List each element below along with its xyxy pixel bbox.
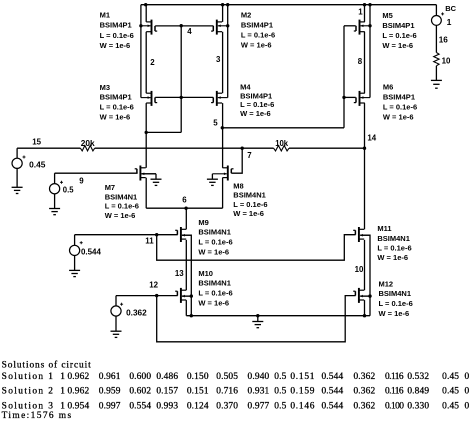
ground at 0.45 source — [12, 186, 23, 188]
svg-text:6: 6 — [182, 195, 187, 204]
wire M2 drain to rail — [222, 5, 224, 22]
wire M6 drain down to node 14 — [364, 103, 366, 148]
wire M9/M10 bulk bus to bottom rail — [182, 235, 191, 316]
svg-text:0: 0 — [464, 401, 469, 411]
svg-text:10: 10 — [442, 56, 451, 66]
svg-text:M6: M6 — [383, 83, 393, 92]
svg-text:0.45: 0.45 — [442, 401, 459, 411]
ground at BC chain — [431, 79, 442, 81]
svg-text:0.5: 0.5 — [274, 401, 286, 411]
svg-text:0.716: 0.716 — [216, 387, 238, 397]
ground at 0.544 source — [69, 269, 80, 271]
ground at M7 bulk — [151, 178, 162, 180]
wire M3-M4 gate row (net 4) — [155, 96, 213, 98]
svg-text:0.544: 0.544 — [321, 401, 343, 411]
svg-text:M3: M3 — [100, 83, 110, 92]
wire M5 drain to rail — [364, 5, 366, 22]
wire VDD top rail net 1 — [141, 4, 437, 6]
node 13 wire M9 source - M10 drain — [185, 240, 187, 290]
svg-text:W = 1e-6: W = 1e-6 — [233, 209, 264, 218]
junction dot (140.9,25.8) — [139, 24, 142, 27]
wire node 9 row to M7 gate — [55, 172, 138, 174]
svg-text:L = 0.1e-6: L = 0.1e-6 — [379, 299, 413, 308]
svg-text:20k: 20k — [81, 138, 95, 148]
transistor M4 — [216, 91, 218, 106]
svg-text:0.157: 0.157 — [156, 387, 178, 397]
svg-text:BSIM4N1: BSIM4N1 — [198, 228, 231, 237]
svg-text:0.554: 0.554 — [129, 401, 151, 411]
svg-text:BSIM4N1: BSIM4N1 — [379, 289, 412, 298]
transistor M2 — [216, 20, 218, 35]
voltage source BC (node 1, value 1) — [432, 16, 442, 26]
svg-text:Time:1576 ms: Time:1576 ms — [2, 411, 73, 421]
svg-text:0.362: 0.362 — [126, 308, 147, 318]
svg-text:0: 0 — [464, 387, 469, 397]
svg-text:BSIM4P1: BSIM4P1 — [241, 21, 273, 30]
node 5 row wire — [223, 127, 344, 129]
svg-text:0.370: 0.370 — [216, 401, 238, 411]
svg-text:4: 4 — [187, 27, 192, 36]
svg-text:2: 2 — [150, 58, 155, 67]
svg-text:M2: M2 — [241, 11, 251, 20]
wire M1 bulk bus — [140, 5, 142, 98]
wire node 12 row to M10 gate — [116, 295, 178, 297]
junction dot (257.8,315.7) — [256, 314, 259, 317]
svg-text:BSIM4P1: BSIM4P1 — [382, 21, 414, 30]
junction dot (156.7,295.6) — [155, 294, 158, 297]
svg-text:0.5: 0.5 — [63, 184, 74, 194]
svg-text:0.544: 0.544 — [321, 372, 343, 382]
wire net 4: M3 drain down, link row, vertical, M7 drain — [145, 103, 147, 168]
transistor M1 — [151, 20, 153, 35]
ground at 0.5 source — [49, 208, 60, 210]
junction dot (191.3,315.7) — [190, 314, 193, 317]
svg-text:3: 3 — [216, 55, 221, 64]
svg-text:0.849: 0.849 — [407, 387, 429, 397]
svg-text:L = 0.1e-6: L = 0.1e-6 — [240, 100, 274, 109]
svg-text:0.602: 0.602 — [129, 387, 151, 397]
junction dot (181.2,97.4) — [180, 96, 183, 99]
svg-text:M12: M12 — [379, 279, 394, 288]
node 8 wire — [364, 32, 366, 93]
svg-text:0.997: 0.997 — [99, 401, 121, 411]
svg-text:10k: 10k — [275, 138, 288, 148]
node 6 row wire — [146, 207, 222, 209]
svg-text:10: 10 — [355, 265, 364, 274]
wire node 11 jog to M11 gate — [157, 235, 356, 261]
svg-text:L = 0.1e-6: L = 0.1e-6 — [198, 289, 232, 298]
junction dot (370.0,296.1) — [368, 294, 371, 297]
wire M2 bulk bus — [227, 5, 229, 98]
transistor M3 — [151, 91, 153, 106]
ground at bottom rail — [257, 316, 259, 322]
svg-text:0.5: 0.5 — [274, 372, 286, 382]
junction dot (364.5,148.2) — [363, 147, 366, 150]
wire M9 drain from node 6 — [185, 208, 187, 229]
svg-text:M10: M10 — [198, 269, 213, 278]
svg-text:BSIM4P1: BSIM4P1 — [240, 91, 272, 100]
svg-text:L = 0.1e-6: L = 0.1e-6 — [100, 31, 134, 40]
svg-text:M11: M11 — [377, 224, 391, 233]
svg-text:L = 0.1e-6: L = 0.1e-6 — [233, 200, 267, 209]
svg-text:L = 0.1e-6: L = 0.1e-6 — [105, 202, 139, 211]
svg-text:0.544: 0.544 — [81, 246, 101, 256]
svg-text:L = 0.1e-6: L = 0.1e-6 — [198, 238, 232, 247]
svg-text:M7: M7 — [105, 183, 115, 192]
wire M8 source down — [222, 178, 224, 209]
svg-text:M9: M9 — [198, 218, 208, 227]
svg-text:0.150: 0.150 — [187, 372, 209, 382]
wire net 5 vertical M4 drain to M8 drain — [222, 103, 224, 168]
transistor M6 — [359, 91, 361, 106]
svg-text:0: 0 — [464, 372, 469, 382]
svg-text:W = 1e-6: W = 1e-6 — [198, 248, 229, 257]
wire M5 bulk bus — [369, 5, 371, 98]
svg-text:0.45: 0.45 — [442, 372, 459, 382]
wire M8 bulk to local ground — [211, 174, 213, 179]
svg-text:0.45: 0.45 — [442, 387, 459, 397]
svg-text:13: 13 — [175, 269, 184, 278]
svg-text:0.959: 0.959 — [99, 387, 121, 397]
voltage source 0.362 (node 12) — [115, 296, 117, 307]
svg-text:M1: M1 — [100, 11, 110, 20]
junction dot (222.6,4.7) — [221, 3, 224, 6]
svg-text:W = 1e-6: W = 1e-6 — [198, 299, 229, 308]
wire M12 source down to bottom rail — [364, 300, 366, 316]
svg-text:0.116: 0.116 — [385, 387, 404, 397]
svg-text:8: 8 — [358, 57, 363, 66]
transistor M10 — [180, 288, 182, 303]
ground at 0.362 source — [111, 330, 122, 332]
wire M7 source down — [145, 178, 147, 209]
svg-text:0.100: 0.100 — [385, 401, 404, 411]
svg-text:9: 9 — [79, 176, 84, 185]
svg-text:BSIM4P1: BSIM4P1 — [100, 93, 132, 102]
junction dot (145.7,4.7) — [144, 3, 147, 6]
wire M1 drain to rail — [145, 5, 147, 22]
junction dot (227.7,4.7) — [226, 3, 229, 6]
svg-text:W = 1e-6: W = 1e-6 — [100, 113, 131, 122]
svg-text:0.977: 0.977 — [248, 401, 270, 411]
wire resistor to ground — [435, 66, 437, 80]
svg-text:0.600: 0.600 — [129, 372, 151, 382]
wire node 7 row — [95, 147, 274, 149]
svg-text:0.954: 0.954 — [67, 401, 89, 411]
svg-text:1: 1 — [358, 7, 363, 16]
svg-text:0.159: 0.159 — [290, 387, 315, 397]
svg-text:11: 11 — [145, 237, 154, 246]
svg-text:0.993: 0.993 — [156, 401, 178, 411]
voltage source 0.5 (node 9) — [54, 173, 56, 184]
svg-text:12: 12 — [149, 281, 158, 290]
svg-text:0.962: 0.962 — [67, 372, 89, 382]
junction dot (364.5,315.7) — [363, 314, 366, 317]
svg-text:BSIM4N1: BSIM4N1 — [233, 191, 266, 200]
svg-text:0.151: 0.151 — [187, 387, 209, 397]
svg-text:0.45: 0.45 — [29, 159, 46, 169]
svg-text:W = 1e-6: W = 1e-6 — [240, 109, 271, 118]
junction dot (191.3,296.1) — [190, 294, 193, 297]
svg-text:BC: BC — [445, 4, 456, 13]
svg-text:0.532: 0.532 — [407, 372, 429, 382]
svg-text:W = 1e-6: W = 1e-6 — [383, 112, 414, 121]
svg-text:M4: M4 — [240, 83, 251, 92]
junction dot (156.7,234.7) — [155, 233, 158, 236]
svg-text:0.505: 0.505 — [216, 372, 238, 382]
wire 10k to node 14 — [289, 147, 365, 149]
svg-text:Solution 2: Solution 2 — [2, 387, 55, 397]
junction dot (181.2,25.7) — [180, 24, 183, 27]
junction dot (242.2,148.2) — [241, 147, 244, 150]
svg-text:0.5: 0.5 — [274, 387, 286, 397]
svg-text:W = 1e-6: W = 1e-6 — [100, 41, 131, 50]
wire node 16 — [435, 25, 437, 52]
svg-text:0.124: 0.124 — [187, 401, 209, 411]
voltage source 0.45 (node 15) — [16, 148, 18, 158]
node 2 wire — [145, 32, 147, 93]
svg-text:L = 0.1e-6: L = 0.1e-6 — [100, 103, 134, 112]
svg-text:L = 0.1e-6: L = 0.1e-6 — [382, 31, 416, 40]
svg-text:BSIM4N1: BSIM4N1 — [105, 192, 138, 201]
svg-text:BSIM4P1: BSIM4P1 — [100, 21, 132, 30]
transistor M12 — [358, 288, 360, 303]
svg-text:0.146: 0.146 — [290, 401, 315, 411]
svg-text:L = 0.1e-6: L = 0.1e-6 — [241, 31, 275, 40]
junction dot (364.5,4.7) — [363, 3, 366, 6]
junction dot (344.0,97.4) — [342, 96, 345, 99]
svg-text:16: 16 — [439, 35, 448, 45]
resistor 20k — [80, 146, 94, 151]
wire M5-M6 gate bus (net 5) — [343, 26, 345, 128]
wire M11/M12 bulk bus to bottom rail — [361, 235, 371, 316]
svg-text:Solutions of circuit: Solutions of circuit — [2, 360, 92, 371]
svg-text:0.116: 0.116 — [385, 372, 404, 382]
svg-text:0.544: 0.544 — [321, 387, 343, 397]
node 4 wire M1-M2 gates — [155, 25, 213, 27]
svg-text:M8: M8 — [233, 181, 243, 190]
svg-text:W = 1e-6: W = 1e-6 — [377, 253, 408, 262]
svg-text:0.362: 0.362 — [353, 372, 375, 382]
svg-text:BSIM4P1: BSIM4P1 — [383, 93, 415, 102]
svg-text:BSIM4N1: BSIM4N1 — [198, 279, 231, 288]
ground at M8 bulk — [207, 178, 218, 180]
svg-text:W = 1e-6: W = 1e-6 — [379, 309, 410, 318]
svg-text:0.486: 0.486 — [156, 372, 178, 382]
svg-text:L = 0.1e-6: L = 0.1e-6 — [377, 244, 411, 253]
transistor M8 — [227, 166, 229, 181]
voltage source 0.544 (node 11) — [74, 235, 76, 246]
junction dot (222.3,127.8) — [221, 126, 224, 129]
svg-text:0.151: 0.151 — [290, 372, 315, 382]
svg-text:M5: M5 — [382, 11, 392, 20]
svg-text:0.961: 0.961 — [99, 372, 121, 382]
wire node 7 branch to M8 gate — [231, 148, 242, 173]
resistor 10k — [274, 146, 289, 151]
svg-text:0.362: 0.362 — [353, 387, 375, 397]
wire rail to BC source — [435, 5, 437, 16]
svg-text:L = 0.1e-6: L = 0.1e-6 — [383, 102, 417, 111]
wire node 12 jog to M12 gate — [157, 296, 356, 342]
svg-text:0.940: 0.940 — [248, 372, 270, 382]
svg-text:Solution 3: Solution 3 — [2, 401, 55, 411]
transistor M9 — [180, 227, 182, 242]
svg-text:15: 15 — [32, 137, 41, 146]
transistor M11 — [358, 227, 360, 242]
junction dot (370.0,4.7) — [368, 3, 371, 6]
wire node 14 down to M11 drain — [364, 148, 366, 229]
svg-text:BSIM4N1: BSIM4N1 — [377, 234, 410, 243]
svg-text:W = 1e-6: W = 1e-6 — [241, 41, 272, 50]
svg-text:5: 5 — [213, 118, 218, 127]
junction dot (370.0,25.8) — [368, 24, 371, 27]
svg-text:1: 1 — [60, 387, 65, 397]
wire M10 source down to bottom rail — [185, 300, 187, 316]
svg-text:14: 14 — [367, 133, 376, 142]
junction dot (186.1,208.2) — [184, 207, 187, 210]
junction dot (227.7,25.8) — [226, 24, 229, 27]
svg-text:7: 7 — [247, 151, 252, 160]
svg-text:1: 1 — [447, 17, 452, 27]
svg-text:W = 1e-6: W = 1e-6 — [105, 211, 136, 220]
svg-text:1: 1 — [60, 372, 65, 382]
svg-text:0.931: 0.931 — [248, 387, 270, 397]
junction dot (146.2,132.4) — [145, 131, 148, 134]
resistor 10 — [434, 53, 439, 66]
wire node 11 row to M9 gate — [75, 234, 178, 236]
svg-text:0.962: 0.962 — [67, 387, 89, 397]
wire node 15 row — [17, 147, 80, 149]
bottom ground rail wire — [186, 315, 370, 317]
svg-text:1: 1 — [60, 401, 65, 411]
svg-text:Solution 1: Solution 1 — [2, 372, 55, 382]
transistor M5 — [359, 20, 361, 35]
svg-text:W = 1e-6: W = 1e-6 — [382, 41, 413, 50]
transistor M7 — [139, 166, 141, 181]
wire M7 bulk to local ground — [141, 173, 156, 175]
svg-text:0.330: 0.330 — [407, 401, 429, 411]
node 3 wire — [222, 32, 224, 93]
node 10 wire M11 source - M12 drain — [364, 240, 366, 290]
svg-text:0.362: 0.362 — [353, 401, 375, 411]
